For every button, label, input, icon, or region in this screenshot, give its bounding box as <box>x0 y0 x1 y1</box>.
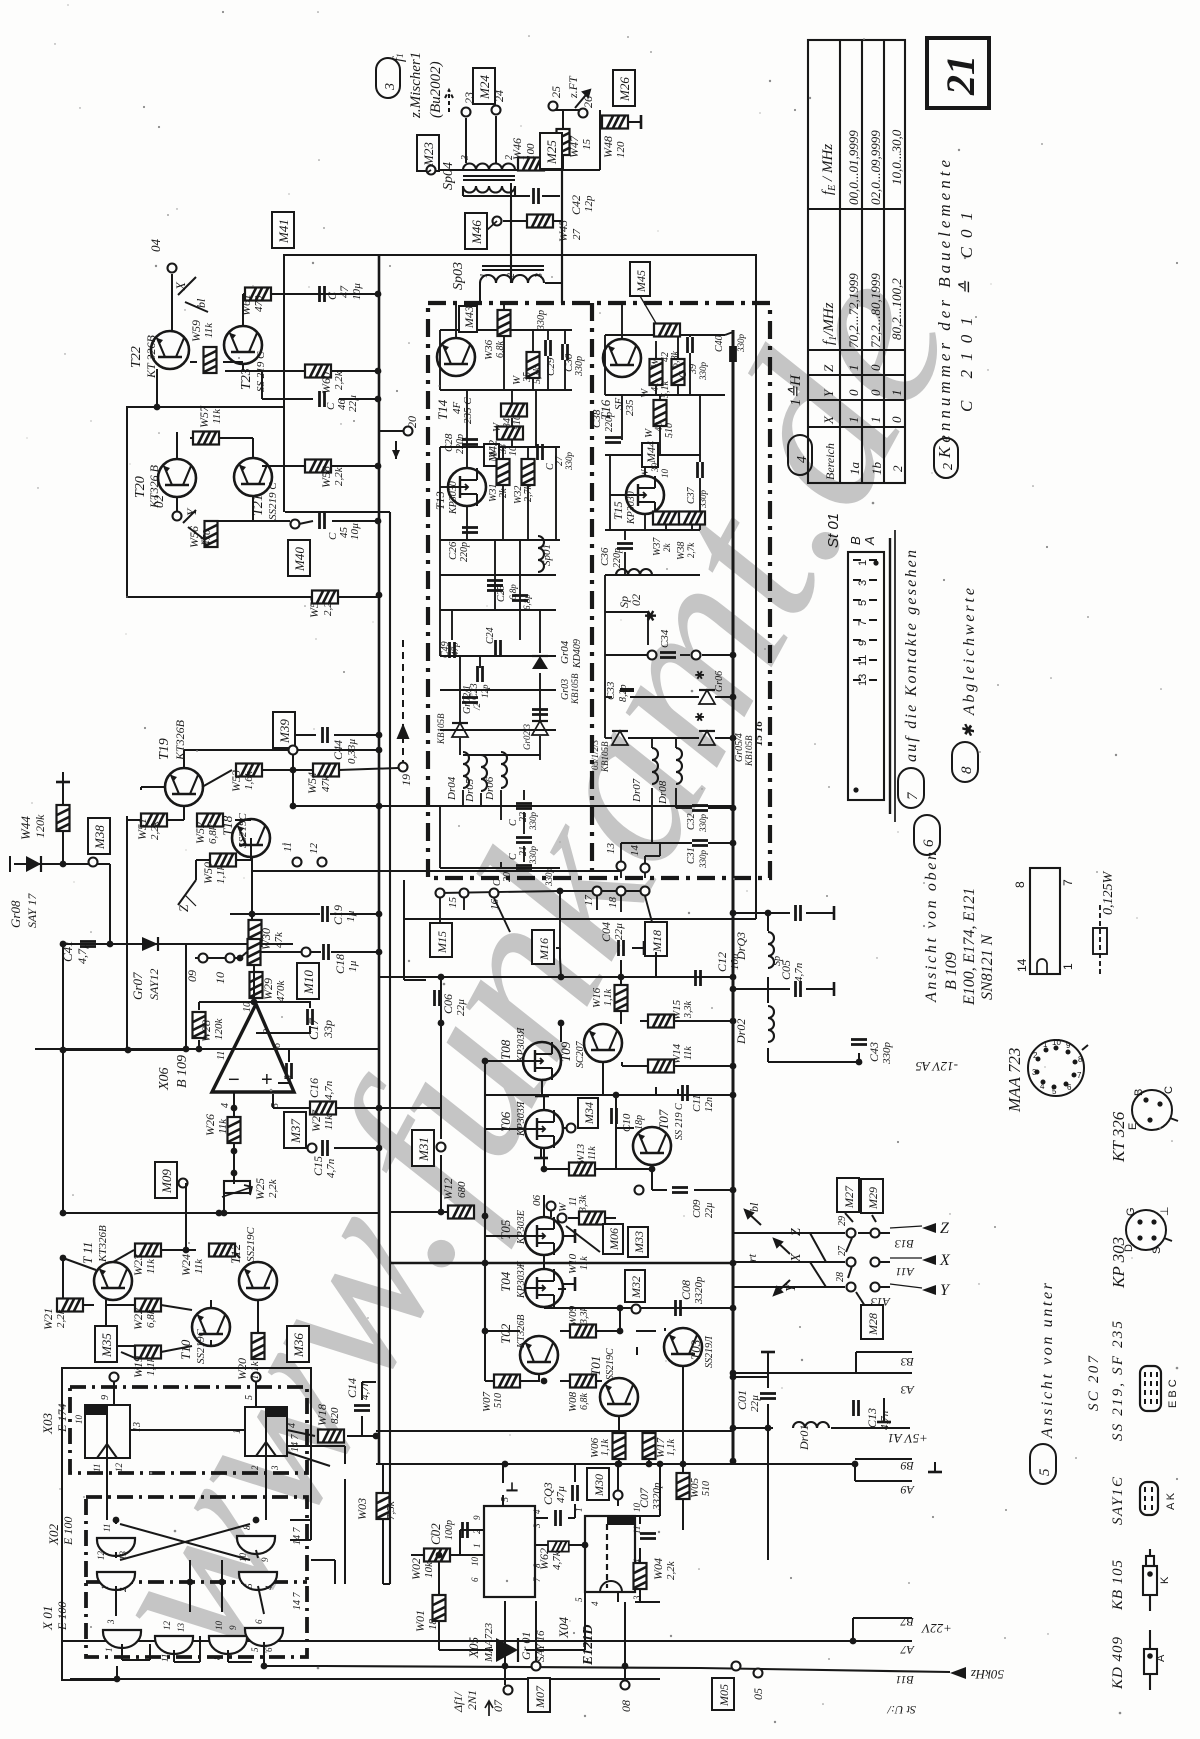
inductor coil <box>538 536 544 572</box>
terminal <box>168 264 177 273</box>
svg-text:2,7k: 2,7k <box>523 485 534 503</box>
svg-text:220p: 220p <box>459 542 470 562</box>
terminal <box>436 889 445 898</box>
capacitor <box>538 444 543 460</box>
svg-text:SS219Л: SS219Л <box>704 1335 715 1368</box>
transistor T09 <box>584 1024 622 1062</box>
capacitor <box>487 581 503 586</box>
capacitor <box>640 1534 656 1539</box>
svg-text:A: A <box>862 536 877 546</box>
resistor <box>245 288 271 301</box>
measuring point box M16 <box>532 930 554 964</box>
diode <box>612 731 628 745</box>
dash-dot module border <box>428 303 770 878</box>
capacitor <box>573 1485 578 1501</box>
svg-text:3: 3 <box>460 155 471 161</box>
50kHz row <box>950 1667 966 1679</box>
svg-text:W22: W22 <box>131 1308 145 1330</box>
wire junction <box>60 1047 67 1054</box>
svg-text:C33: C33 <box>605 681 617 700</box>
wire junction <box>730 735 737 742</box>
wire junction <box>730 652 737 659</box>
svg-text:M10: M10 <box>301 970 316 995</box>
svg-text:72,2...80,1999: 72,2...80,1999 <box>868 273 883 348</box>
resistor <box>522 459 535 485</box>
resistor <box>305 460 331 473</box>
svg-text:KB105B: KB105B <box>600 741 610 773</box>
svg-text:W57: W57 <box>197 405 211 428</box>
svg-text:02: 02 <box>629 594 643 606</box>
measuring point box M07 <box>528 1678 550 1712</box>
svg-text:(Bu2002): (Bu2002) <box>428 61 444 118</box>
resistor <box>141 814 167 827</box>
wire junction <box>376 732 383 739</box>
svg-text:820: 820 <box>329 1407 341 1424</box>
svg-text:1: 1 <box>1061 963 1075 970</box>
svg-text:KT 326: KT 326 <box>1109 1111 1128 1163</box>
svg-text:✱ Abgleichwerte: ✱ Abgleichwerte <box>961 588 978 738</box>
svg-text:08: 08 <box>619 1700 633 1712</box>
svg-text:⊥: ⊥ <box>1159 1206 1171 1216</box>
svg-text:10µ: 10µ <box>351 283 363 300</box>
svg-text:M41: M41 <box>276 219 291 244</box>
wire junction <box>183 1046 190 1053</box>
svg-text:SAY 16: SAY 16 <box>535 1630 547 1662</box>
T22/T23 <box>157 274 378 540</box>
svg-text:1: 1 <box>472 1544 482 1549</box>
svg-text:C02: C02 <box>428 1523 443 1545</box>
svg-text:11: 11 <box>216 1051 227 1060</box>
FET transistor T05 <box>525 1217 563 1255</box>
svg-text:SAY 17: SAY 17 <box>25 893 39 928</box>
svg-text:KD409: KD409 <box>572 639 583 669</box>
resistor <box>193 1012 206 1038</box>
svg-text:B 109: B 109 <box>175 1055 190 1088</box>
measuring point box M36 <box>287 1326 309 1362</box>
measuring point box M32 <box>625 1270 645 1302</box>
resistor <box>653 512 679 525</box>
wire junction <box>219 1579 226 1586</box>
capacitor <box>796 981 801 997</box>
svg-text:-12V A5: -12V A5 <box>915 1059 958 1074</box>
svg-text:10,0...30,0: 10,0...30,0 <box>889 129 904 185</box>
wire junction <box>60 941 67 948</box>
svg-text:15 16: 15 16 <box>753 721 765 746</box>
ground <box>506 1482 517 1490</box>
svg-text:28: 28 <box>835 1272 846 1282</box>
svg-text:−: − <box>228 1069 240 1091</box>
terminal <box>318 858 327 867</box>
measuring point box M35 <box>95 1326 117 1362</box>
svg-text:4,7n: 4,7n <box>325 1158 337 1178</box>
wire junction <box>730 1018 737 1025</box>
svg-text:A: A <box>1155 1654 1167 1662</box>
svg-text:18: 18 <box>427 1619 439 1631</box>
svg-text:Δf1/: Δf1/ <box>451 1691 465 1713</box>
wire junction <box>482 1260 489 1267</box>
wire junction <box>376 592 383 599</box>
terminal <box>289 746 298 755</box>
svg-text:M46: M46 <box>469 220 484 245</box>
wire junction <box>730 805 737 812</box>
svg-text:W09: W09 <box>567 1305 579 1326</box>
svg-text:W51: W51 <box>135 818 149 840</box>
svg-text:T19: T19 <box>157 738 172 760</box>
svg-text:2,2k: 2,2k <box>665 1560 677 1580</box>
svg-text:T15: T15 <box>611 501 625 520</box>
wire junction <box>373 1433 380 1440</box>
capacitor <box>323 906 328 922</box>
svg-text:13: 13 <box>118 1551 128 1561</box>
wire junction <box>253 1517 260 1524</box>
svg-text:W14: W14 <box>671 1043 683 1064</box>
svg-text:C41: C41 <box>60 940 75 962</box>
svg-text:14 7: 14 7 <box>292 1527 303 1546</box>
svg-text:3,3k: 3,3k <box>683 1001 694 1020</box>
resistor <box>527 352 540 378</box>
resistor <box>634 1563 647 1589</box>
wire junction <box>730 1458 737 1465</box>
svg-text:C31: C31 <box>686 847 697 864</box>
svg-text:4,7n: 4,7n <box>793 962 805 982</box>
svg-text:7: 7 <box>857 620 869 626</box>
svg-text:220p: 220p <box>455 434 466 454</box>
diode <box>532 721 548 735</box>
diode <box>699 690 715 704</box>
svg-text:10k: 10k <box>423 1561 435 1578</box>
svg-text:Dr07: Dr07 <box>631 778 643 803</box>
svg-text:11: 11 <box>102 1524 112 1532</box>
svg-text:Gr08: Gr08 <box>8 900 23 928</box>
svg-text:470k: 470k <box>275 980 287 1003</box>
svg-text:3: 3 <box>383 83 398 91</box>
svg-text:T14: T14 <box>435 399 450 420</box>
svg-text:04: 04 <box>148 239 163 253</box>
ground <box>56 772 70 782</box>
svg-text:X02: X02 <box>46 1524 61 1546</box>
box around T20/T21 <box>127 407 378 597</box>
watermark www.funkamt.de <box>45 230 1001 1697</box>
resistor <box>252 1333 265 1359</box>
svg-text:7: 7 <box>1061 879 1075 886</box>
svg-text:5,1k: 5,1k <box>660 381 671 399</box>
terminal <box>293 858 302 867</box>
FET transistor T08 <box>523 1042 561 1080</box>
svg-text:KT326B: KT326B <box>516 1315 527 1349</box>
svg-text:6,8k: 6,8k <box>670 351 681 369</box>
resistor <box>650 359 663 385</box>
svg-text:8: 8 <box>959 766 975 774</box>
wire junction <box>249 911 256 918</box>
solid module box <box>284 255 756 919</box>
diode <box>699 731 715 745</box>
wire junction <box>730 1425 737 1432</box>
svg-text:T09: T09 <box>558 1041 573 1062</box>
svg-text:470: 470 <box>253 295 265 312</box>
ground <box>534 1148 548 1158</box>
capacitor <box>619 940 624 956</box>
svg-text:Sp01: Sp01 <box>541 544 553 566</box>
wire junction <box>502 1663 509 1670</box>
circled 2 Kennummer <box>934 438 958 478</box>
svg-text:5: 5 <box>250 1647 260 1652</box>
capacitor <box>516 838 532 843</box>
resistor <box>672 359 685 385</box>
resistor <box>677 1473 690 1499</box>
inductor coil <box>652 748 658 784</box>
svg-text:07: 07 <box>491 1699 505 1712</box>
wire junction <box>60 861 67 868</box>
wire junction <box>113 1517 120 1524</box>
measuring point box M09 <box>155 1162 177 1198</box>
svg-text:M38: M38 <box>92 825 107 850</box>
svg-text:3,3k: 3,3k <box>578 1195 589 1214</box>
svg-text:50kHz: 50kHz <box>971 1667 1004 1682</box>
svg-text:1≙H: 1≙H <box>787 374 804 406</box>
wire junction <box>852 1461 859 1468</box>
resistor <box>424 1549 450 1562</box>
svg-text:W08: W08 <box>567 1391 579 1412</box>
resistor <box>250 972 263 998</box>
svg-text:SAY12: SAY12 <box>147 969 161 1000</box>
svg-text:Dr06: Dr06 <box>484 776 496 801</box>
svg-text:6,8k: 6,8k <box>207 824 219 844</box>
svg-text:470: 470 <box>201 529 213 546</box>
svg-text:120: 120 <box>615 141 627 158</box>
wire junction <box>290 767 297 774</box>
svg-text:C44: C44 <box>331 740 345 760</box>
svg-text:7: 7 <box>1077 1071 1082 1080</box>
svg-text:SN8121 N: SN8121 N <box>979 933 996 1000</box>
svg-text:C16: C16 <box>307 1078 321 1098</box>
svg-text:KT326B: KT326B <box>97 1225 109 1263</box>
left mid: W44, Gr08, C41, Gr07, T19, T18 <box>10 640 408 1213</box>
svg-text:510: 510 <box>664 423 675 438</box>
resistor <box>305 365 331 378</box>
svg-text:MAA 723: MAA 723 <box>1005 1048 1024 1113</box>
terminal <box>641 887 650 896</box>
svg-text:1,1k: 1,1k <box>249 1360 261 1380</box>
capacitor <box>851 1040 867 1045</box>
wire junction <box>657 1461 664 1468</box>
measuring point box M05 <box>712 1678 734 1710</box>
svg-text:2k: 2k <box>662 543 672 553</box>
wire junction <box>482 1213 489 1220</box>
resistor <box>494 1375 520 1388</box>
terminal <box>692 651 701 660</box>
measuring point box M18 <box>645 922 667 956</box>
FET transistor T15 <box>626 476 664 514</box>
wire junction <box>107 941 114 948</box>
svg-text:330p: 330p <box>881 1042 893 1066</box>
svg-text:KP303Я: KP303Я <box>516 1026 527 1063</box>
resistor <box>57 805 70 831</box>
svg-text:4,7µ: 4,7µ <box>75 942 89 964</box>
wire junction <box>616 1461 623 1468</box>
svg-text:1: 1 <box>100 1586 110 1591</box>
DIP-14 package <box>1030 868 1060 974</box>
svg-text:C: C <box>1163 1086 1175 1094</box>
resistor <box>135 1244 161 1257</box>
svg-text:6: 6 <box>470 1577 480 1582</box>
svg-text:6,8p: 6,8p <box>522 594 532 610</box>
svg-text:A7: A7 <box>900 1643 915 1657</box>
svg-text:W23: W23 <box>131 1254 145 1276</box>
wire junction <box>231 1148 238 1155</box>
wire junction <box>730 1187 737 1194</box>
capacitor <box>796 905 801 921</box>
capacitor <box>698 462 703 478</box>
ground <box>563 1229 575 1243</box>
op-amp X06 B109 <box>63 945 441 1213</box>
measuring point box M24 <box>473 68 495 104</box>
capacitor <box>556 1510 561 1526</box>
svg-text:SS219C: SS219C <box>605 1348 616 1380</box>
svg-text:100: 100 <box>525 143 537 160</box>
svg-text:11k: 11k <box>193 1258 205 1274</box>
svg-text:SS219 C: SS219 C <box>267 482 279 520</box>
transistor T12 <box>239 1262 277 1300</box>
svg-text:2: 2 <box>472 1529 482 1534</box>
terminal <box>754 1669 763 1678</box>
capacitor <box>534 188 539 204</box>
svg-text:Sp04: Sp04 <box>441 162 456 190</box>
svg-text:St 01: St 01 <box>825 513 842 548</box>
wire junction <box>558 1020 565 1027</box>
svg-text:z.FT: z.FT <box>566 75 580 99</box>
svg-text:12: 12 <box>96 1551 106 1561</box>
ground <box>632 941 644 955</box>
transistor T16 <box>603 339 641 377</box>
svg-text:11k: 11k <box>587 1146 598 1160</box>
terminal <box>579 109 588 118</box>
wire junction <box>856 1059 863 1066</box>
svg-text:235: 235 <box>624 399 636 416</box>
wire junction <box>618 974 625 981</box>
svg-text:5: 5 <box>574 1597 584 1602</box>
svg-text:C05: C05 <box>779 960 793 980</box>
svg-text:M28: M28 <box>866 1313 880 1336</box>
svg-text:C18: C18 <box>333 954 347 974</box>
measuring point box M28 <box>861 1305 883 1339</box>
svg-text:M06: M06 <box>607 1228 621 1251</box>
svg-text:M35: M35 <box>99 1333 114 1358</box>
wire junction <box>730 910 737 917</box>
svg-text:11k: 11k <box>323 1114 335 1130</box>
svg-text:2,2k: 2,2k <box>333 370 345 390</box>
wire junction <box>541 1166 548 1173</box>
terminal <box>871 1229 880 1238</box>
svg-text:T08: T08 <box>498 1039 513 1060</box>
KP303 can <box>1126 1210 1172 1250</box>
resistor <box>569 1163 595 1176</box>
terminal <box>617 862 626 871</box>
terminal <box>199 954 208 963</box>
svg-text:2,2k: 2,2k <box>267 1178 279 1198</box>
svg-text:0: 0 <box>868 389 883 396</box>
svg-text:W44: W44 <box>18 816 33 840</box>
wire junction <box>60 1210 67 1217</box>
svg-text:Dr01: Dr01 <box>797 1425 811 1451</box>
svg-text:SS 219 C: SS 219 C <box>674 1103 685 1140</box>
svg-text:M09: M09 <box>159 1169 174 1194</box>
svg-text:3,3k: 3,3k <box>579 1307 590 1326</box>
resistor <box>654 324 680 337</box>
svg-text:1µ: 1µ <box>345 910 357 922</box>
wire junction <box>557 888 564 895</box>
svg-text:1: 1 <box>232 1429 243 1434</box>
svg-text:W04: W04 <box>651 1558 665 1580</box>
svg-text:S: S <box>1151 1247 1163 1254</box>
wire junction <box>558 974 565 981</box>
svg-text:Gr04: Gr04 <box>559 640 571 664</box>
svg-text:20: 20 <box>502 872 513 882</box>
svg-text:25: 25 <box>549 86 563 98</box>
svg-text:W58: W58 <box>319 466 333 488</box>
svg-text:10: 10 <box>660 469 670 479</box>
svg-text:26: 26 <box>581 96 595 108</box>
svg-text:Bereich: Bereich <box>823 443 837 480</box>
svg-text:220p: 220p <box>612 548 623 568</box>
svg-text:W61: W61 <box>239 294 253 316</box>
svg-text:2,2k: 2,2k <box>55 1308 67 1328</box>
transistor T20 <box>158 459 196 497</box>
svg-text:M31: M31 <box>416 1137 431 1162</box>
svg-text:Sp03: Sp03 <box>451 262 466 290</box>
svg-text:7: 7 <box>532 1577 542 1582</box>
svg-text:235 C: 235 C <box>462 397 474 424</box>
measuring point box M25 <box>540 133 562 169</box>
svg-text:C36: C36 <box>599 547 611 566</box>
terminal <box>632 1305 641 1314</box>
svg-text:13: 13 <box>132 1422 143 1432</box>
terminal <box>173 512 182 521</box>
svg-text:12p: 12p <box>583 195 595 212</box>
wire junction <box>375 368 382 375</box>
capacitor <box>672 1188 688 1193</box>
FET transistor <box>525 1269 563 1307</box>
inductor coil <box>501 752 507 788</box>
measuring point box M42 <box>484 440 500 466</box>
svg-text:2: 2 <box>1033 1051 1038 1060</box>
capacitor <box>532 710 548 715</box>
resistor <box>615 985 628 1011</box>
wire junction <box>730 1260 737 1267</box>
top area: Sp04 transformer, M23-M26 <box>431 90 603 303</box>
svg-text:11k: 11k <box>579 1256 590 1270</box>
svg-text:6,8k: 6,8k <box>495 341 506 359</box>
resistor <box>310 1102 336 1115</box>
wire junction <box>375 463 382 470</box>
svg-text:X05: X05 <box>466 1637 481 1659</box>
Ansicht von unter + circled 5 <box>1030 1444 1056 1484</box>
svg-text:KP3030: KP3030 <box>626 491 637 525</box>
svg-text:10µ: 10µ <box>349 523 361 540</box>
diode <box>532 656 548 669</box>
svg-text:16: 16 <box>489 899 501 911</box>
transistor T23 <box>224 326 262 364</box>
svg-text:11k: 11k <box>217 1118 229 1134</box>
capacitor <box>462 440 478 445</box>
svg-text:0: 0 <box>846 389 861 396</box>
svg-text:10: 10 <box>213 972 227 984</box>
wire junction <box>290 803 297 810</box>
svg-text:W56: W56 <box>187 526 201 548</box>
wire junction <box>261 1663 268 1670</box>
FET transistor T13 <box>448 468 486 506</box>
svg-text:CQ3: CQ3 <box>541 1482 555 1505</box>
svg-text:C37: C37 <box>686 486 697 504</box>
